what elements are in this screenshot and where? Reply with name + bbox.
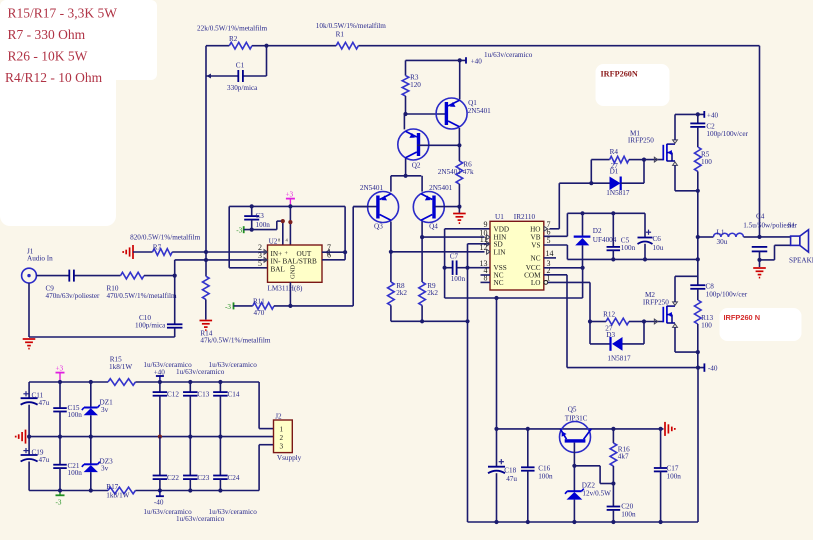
svg-text:R7 - 330 Ohm: R7 - 330 Ohm (8, 27, 86, 42)
power -3 at C3 (236, 226, 244, 234)
svg-text:VB: VB (531, 233, 541, 241)
svg-text:100n: 100n (621, 511, 636, 519)
svg-text:100n: 100n (538, 473, 553, 481)
svg-text:IRFP260N: IRFP260N (601, 70, 638, 79)
transistor M2 IRFP250 (643, 291, 678, 327)
svg-text:30u: 30u (717, 238, 728, 246)
svg-text:U1: U1 (495, 213, 504, 221)
wire gate M2 (644, 319, 663, 324)
resistor R17 (106, 483, 135, 500)
capacitor C3 (244, 206, 270, 229)
svg-text:470n/63v/poliester: 470n/63v/poliester (46, 292, 101, 300)
junction C23 bottom (188, 488, 192, 492)
wire U1 VCC pin 3 (544, 267, 583, 269)
svg-text:C18: C18 (504, 467, 516, 475)
svg-text:2N5401: 2N5401 (468, 107, 492, 115)
capacitor C14 (213, 382, 240, 437)
svg-text:C13: C13 (197, 391, 209, 399)
capacitor C16 (521, 429, 553, 522)
resistor R7 (130, 233, 200, 255)
svg-text:47u: 47u (506, 475, 517, 483)
wire Q4 collector riser (421, 222, 423, 238)
svg-text:C7: C7 (450, 252, 459, 260)
wire J2 pin 1 (259, 382, 273, 429)
junction VCC/D2 (581, 266, 585, 270)
svg-text:1u/63v/ceramico: 1u/63v/ceramico (176, 515, 225, 523)
junction C17 bottom (659, 520, 663, 524)
svg-text:C23: C23 (197, 474, 209, 482)
power +40 (M1) (704, 111, 718, 120)
junction R2/C1 right (264, 44, 268, 48)
annotation note box top-left (0, 0, 157, 226)
junction D2 top (580, 211, 584, 215)
junction C15/C21 (58, 435, 62, 439)
wire VDD net under U1 to VCC (445, 268, 583, 298)
svg-text:IRFP260 N: IRFP260 N (724, 313, 761, 322)
svg-text:100p/mica: 100p/mica (135, 321, 166, 329)
wire U1 SD pin 11 (468, 243, 491, 245)
svg-text:1u/63v/ceramico: 1u/63v/ceramico (484, 51, 533, 59)
junction R6 bottom/Q4 base (457, 205, 461, 209)
wire GND middle rail (29, 436, 273, 438)
resistor R3 (402, 60, 421, 114)
wire R10 to junction (144, 275, 175, 277)
resistor R13 (695, 300, 714, 352)
wire feedback net top (206, 46, 760, 237)
capacitor C17 (654, 429, 681, 522)
ground supply (left) (25, 430, 27, 444)
transistor M1 IRFP250 (628, 130, 678, 166)
capacitor C23 (183, 437, 210, 491)
svg-text:100n: 100n (667, 473, 682, 481)
wire U1 VS pin 5 (544, 245, 568, 259)
power -40 (M2) (704, 363, 717, 372)
junction IN+ node (204, 250, 208, 254)
resistor R1 (316, 22, 386, 49)
wire junction up to IN- wire (174, 260, 176, 276)
svg-text:12v/0.5W: 12v/0.5W (582, 490, 611, 498)
svg-text:D3: D3 (606, 331, 615, 339)
svg-text:Q1: Q1 (468, 99, 477, 107)
svg-text:VDD: VDD (494, 225, 510, 233)
junction DZ2 bottom (572, 520, 576, 524)
svg-text:GND: GND (290, 265, 297, 279)
junction C5 top (611, 211, 615, 215)
svg-text:-40: -40 (708, 365, 718, 373)
junction Q3 collector/LIN/R8 (389, 250, 393, 254)
resistor R16 (610, 429, 630, 484)
junction R16 bottom (611, 481, 615, 485)
resistor R11 (253, 297, 274, 317)
wire C4 ground stub (759, 260, 761, 267)
junction +40/C2 (696, 112, 700, 116)
power +40 at Q1 (406, 51, 533, 66)
svg-text:BAL: BAL (271, 265, 285, 273)
resistor R15 (108, 356, 135, 386)
svg-text:100p/100v/cer: 100p/100v/cer (706, 290, 748, 298)
svg-text:1k8/1W: 1k8/1W (106, 492, 129, 500)
svg-text:Vsupply: Vsupply (277, 454, 302, 462)
wire J2 pin 3 (259, 445, 273, 491)
svg-text:C6: C6 (653, 235, 662, 243)
svg-text:R12: R12 (603, 310, 615, 318)
junction R9 bottom (420, 319, 424, 323)
svg-text:LO: LO (531, 279, 541, 287)
wire junction down to C10 (174, 276, 176, 325)
svg-text:100n: 100n (621, 244, 636, 252)
junction -40 rail / switch leg (696, 366, 700, 370)
svg-text:D1: D1 (610, 167, 619, 175)
power +3 (supply) (56, 364, 65, 382)
svg-text:LM311H(8): LM311H(8) (268, 285, 303, 293)
svg-text:+3: +3 (56, 364, 64, 372)
svg-text:L1: L1 (717, 228, 725, 236)
wire output to speaker (760, 237, 791, 260)
capacitor C11 electrolytic (21, 382, 50, 437)
wire VDD riser from regulator (496, 298, 498, 429)
svg-text:C4: C4 (756, 213, 765, 221)
junction DZ1 top (89, 380, 93, 384)
svg-text:100n: 100n (256, 221, 271, 229)
wire VS rail to switch node (567, 258, 698, 260)
inductor L1 (698, 228, 760, 245)
capacitor C4 (743, 213, 797, 260)
ground speaker (753, 267, 766, 269)
capacitor C6 electrolytic (638, 213, 664, 259)
capacitor C10 (135, 314, 182, 329)
junction M1 source/snubber (696, 189, 700, 193)
svg-text:1.5u/50w/poliester: 1.5u/50w/poliester (743, 222, 797, 230)
svg-text:100: 100 (701, 321, 712, 329)
wire C10 to ground rail (29, 283, 175, 337)
wire -3 to U2 V- pin (244, 221, 283, 245)
capacitor C5 (607, 213, 636, 259)
wire M2 source to -40 (675, 327, 698, 352)
wire Q3/Q4 emitter rail (391, 176, 422, 192)
svg-text:SPEAKER: SPEAKER (789, 256, 813, 264)
svg-text:100n: 100n (68, 469, 83, 477)
junction D1 left (589, 181, 593, 185)
wire regulator top rail (497, 428, 664, 430)
junction C17 top (659, 427, 663, 431)
svg-text:IRFP250: IRFP250 (628, 137, 654, 145)
transistor Q3 2N5401 (360, 184, 399, 230)
svg-text:R17: R17 (106, 483, 118, 491)
svg-text:10u: 10u (653, 244, 664, 252)
wire R2 to IN+ vertical (205, 46, 207, 252)
junction +3 rail (288, 204, 292, 208)
svg-text:4k7: 4k7 (618, 453, 629, 461)
svg-text:1u/63v/ceramico: 1u/63v/ceramico (176, 368, 225, 376)
svg-text:47u: 47u (39, 456, 50, 464)
wire R14 to ground (205, 299, 207, 319)
svg-text:D2: D2 (593, 227, 602, 235)
capacitor C21 (53, 437, 82, 491)
zener DZ3 (82, 437, 113, 491)
svg-text:2k2: 2k2 (396, 289, 407, 297)
svg-text:100: 100 (701, 158, 712, 166)
svg-text:2k2: 2k2 (427, 289, 438, 297)
svg-text:3: 3 (280, 442, 284, 450)
svg-text:10k/0.5W/1%/metalfilm: 10k/0.5W/1%/metalfilm (316, 22, 386, 30)
ground regulator (right) (664, 422, 666, 436)
zener DZ2 (565, 466, 611, 522)
junction V- riser (281, 219, 285, 223)
junction C22 bottom (158, 488, 162, 492)
svg-text:IRFP250: IRFP250 (643, 299, 669, 307)
junction C13 mid (188, 435, 192, 439)
wire R11 to Q3 base riser (274, 207, 368, 306)
connector J2 Vsupply (274, 413, 302, 462)
svg-text:R26 - 10K 5W: R26 - 10K 5W (8, 49, 88, 64)
junction Q4 collector/HIN/R9 (420, 235, 424, 239)
svg-text:5: 5 (547, 236, 551, 245)
wire Q4 base to R6 bottom (435, 206, 460, 208)
svg-text:-3: -3 (225, 303, 231, 311)
wire U1 VSS pin 13 (468, 267, 491, 269)
wire Q5 base to R16 bottom (574, 466, 613, 484)
wire M1 drain to +40 (675, 114, 704, 140)
zener DZ1 (82, 382, 113, 437)
wire -3/-40 bottom rail (29, 490, 259, 492)
svg-text:47k: 47k (463, 168, 474, 176)
svg-text:R15/R17 - 3,3K 5W: R15/R17 - 3,3K 5W (8, 6, 118, 21)
svg-text:+40: +40 (471, 58, 483, 66)
wire down to R14 (205, 252, 207, 276)
wire J1 to C9 (36, 275, 69, 277)
junction C18 bottom (494, 520, 498, 524)
svg-text:-3: -3 (56, 499, 62, 507)
wire U2 GND pin down (289, 282, 291, 306)
junction Q1 collector/Q2 base/R6 (457, 143, 461, 147)
resistor R6 (438, 145, 474, 206)
svg-text:NC: NC (494, 279, 504, 287)
svg-text:HO: HO (530, 225, 540, 233)
svg-text:R1: R1 (336, 31, 345, 39)
svg-text:2N5401: 2N5401 (438, 168, 462, 176)
svg-text:C16: C16 (538, 465, 550, 473)
wire Q3 collector riser (390, 222, 392, 252)
ic U1 IR2110 (480, 213, 557, 290)
capacitor C22 (153, 437, 180, 491)
svg-text:J2: J2 (275, 413, 282, 421)
wire VSS riser down to regulator rail (467, 244, 469, 522)
junction C19 top (27, 435, 31, 439)
annotation IRFP260N (top) (596, 64, 670, 106)
junction output node (757, 235, 761, 239)
wire U1 VB pin 6 (544, 213, 568, 236)
svg-text:Q3: Q3 (374, 222, 383, 230)
capacitor C24 (213, 437, 240, 491)
wire U1 LO pin 1 to gate network (548, 282, 590, 321)
annotation IRFP260N (right) (720, 308, 802, 341)
svg-text:R2: R2 (229, 35, 238, 43)
junction VDD riser top (494, 296, 498, 300)
junction M2 source (696, 350, 700, 354)
svg-text:C5: C5 (621, 236, 630, 244)
svg-text:C3: C3 (256, 212, 265, 220)
wire Q1 emitter riser (459, 60, 461, 99)
svg-text:14: 14 (546, 249, 554, 258)
svg-text:3v: 3v (101, 465, 109, 473)
diode D3 1N5817 (590, 322, 644, 363)
wire U2 OUT pins (322, 206, 345, 259)
power -3 at R11 (225, 302, 253, 311)
speaker S1 (788, 221, 813, 264)
svg-text:1N5817: 1N5817 (607, 355, 631, 363)
transistor Q2 2N5401 (398, 129, 429, 170)
wire switch leg to -40 rail (697, 352, 699, 368)
junction C14 mid (218, 435, 222, 439)
svg-text:R4/R12 - 10 Ohm: R4/R12 - 10 Ohm (5, 70, 103, 85)
wire R6 ground stub (458, 207, 460, 213)
transistor Q4 2N5401 (413, 184, 452, 230)
junction R10/C10/IN- (173, 274, 177, 278)
junction OUT (343, 250, 347, 254)
junction C13 top (188, 380, 192, 384)
wire -40 down to bottom rail (468, 368, 699, 522)
junction C14 top (218, 380, 222, 384)
junction Q5 base (572, 464, 576, 468)
svg-text:NC: NC (531, 254, 541, 262)
junction R16 top (611, 427, 615, 431)
junction C20 bottom (611, 520, 615, 524)
svg-text:C20: C20 (621, 503, 633, 511)
svg-text:470/0.5W/1%/metalfilm: 470/0.5W/1%/metalfilm (107, 292, 177, 300)
svg-text:820/0.5W/1%/metalfilm: 820/0.5W/1%/metalfilm (130, 233, 200, 241)
wire +3/+40 top rail (29, 381, 259, 383)
svg-text:C1: C1 (236, 61, 245, 69)
svg-text:R11: R11 (253, 297, 265, 305)
svg-text:C22: C22 (167, 474, 179, 482)
svg-text:+3: +3 (286, 191, 294, 199)
svg-text:1k8/1W: 1k8/1W (109, 363, 132, 371)
junction C7 left / VDD (443, 266, 447, 270)
wire Q3 base (353, 206, 376, 208)
junction C7 right / VSS (465, 266, 469, 270)
wire U1 VDD pin 9 (445, 229, 490, 268)
wire R8/R9 bottom rail to VSS riser (391, 320, 468, 322)
wire Q2 emitter riser (403, 114, 405, 129)
transistor Q5 TIP31C (560, 406, 592, 466)
svg-text:1: 1 (280, 425, 284, 433)
power -40 (supply) (154, 491, 164, 507)
capacitor C9 (46, 270, 101, 300)
diode D1 1N5817 (591, 160, 644, 197)
svg-text:-3: -3 (236, 226, 242, 234)
svg-text:U2: U2 (269, 238, 278, 246)
wire switch node vertical (697, 191, 699, 285)
diode D2 UF4004 (574, 213, 617, 267)
junction C3 top (250, 204, 254, 208)
junction LO/R12/D3 (588, 319, 592, 323)
svg-text:2N5401: 2N5401 (429, 184, 453, 192)
junction C21 bottom (58, 488, 62, 492)
svg-text:100n: 100n (451, 275, 466, 283)
wire M1 source to node (675, 165, 698, 191)
resistor R4 (591, 148, 644, 183)
svg-text:VS: VS (531, 242, 540, 250)
resistor R10 (107, 272, 177, 300)
junction DZ1/DZ3 (89, 435, 93, 439)
power +3 above U2 (286, 191, 295, 245)
svg-text:-40: -40 (154, 498, 164, 506)
svg-text:330p/mica: 330p/mica (227, 84, 258, 92)
power +40 (supply) (154, 368, 166, 382)
ground J1 (23, 338, 36, 340)
junction Q2 collector (404, 174, 408, 178)
resistor R5 (695, 147, 713, 191)
junction U2 GND/R11 (288, 304, 292, 308)
junction VSS riser bottom wire (465, 319, 469, 323)
wire C9 to R10 (75, 275, 121, 277)
svg-text:5: 5 (258, 259, 262, 268)
power -3 (supply) (56, 491, 65, 507)
svg-text:LIN: LIN (494, 248, 507, 256)
svg-text:C17: C17 (667, 465, 679, 473)
junction C5 bottom (611, 257, 615, 261)
transistor Q1 2N5401 (436, 98, 491, 129)
svg-text:SD: SD (494, 240, 503, 248)
svg-text:BAL/STRB: BAL/STRB (283, 258, 318, 266)
junction C16 top (526, 427, 530, 431)
ground R14 (200, 320, 213, 322)
capacitor C7 (445, 252, 468, 282)
label ceramic caps top (143, 361, 257, 376)
svg-text:2: 2 (280, 434, 284, 442)
wire IN- to U2 pin 3 (175, 259, 268, 261)
wire M2 drain to switch node (675, 276, 698, 302)
svg-text:120: 120 (410, 81, 421, 89)
svg-text:2N5401: 2N5401 (360, 184, 384, 192)
wire Q1 collector riser (458, 128, 460, 145)
junction V+ riser (288, 220, 292, 224)
svg-text:C24: C24 (228, 474, 240, 482)
junction C12 mid (158, 435, 162, 439)
svg-text:3v: 3v (101, 406, 109, 414)
junction C3 bottom (250, 228, 254, 232)
capacitor C13 (183, 382, 210, 437)
capacitor C12 (153, 382, 180, 437)
wire VB bootstrap rail (567, 212, 645, 214)
svg-text:1N5817: 1N5817 (606, 189, 630, 197)
svg-text:C12: C12 (167, 391, 179, 399)
junction C16 bottom (526, 520, 530, 524)
junction Q1 emitter/+40 (458, 58, 462, 62)
ground R7 (left) (123, 245, 152, 259)
wire gate M1 (644, 157, 663, 162)
svg-text:Q5: Q5 (568, 406, 577, 414)
junction IN- tap (204, 258, 208, 262)
capacitor C18 electrolytic (488, 429, 517, 522)
wire HIN to U1 pin 10 (422, 236, 484, 238)
capacitor C1 (206, 46, 267, 92)
svg-text:470: 470 (254, 309, 265, 317)
resistor R2 (197, 25, 267, 50)
junction VS rail node (696, 257, 700, 261)
junction C18 top (494, 427, 498, 431)
junction R12/D3 right (642, 319, 646, 323)
svg-text:Q2: Q2 (412, 162, 421, 170)
junction C15 top (58, 380, 62, 384)
wire rail above U2 (229, 206, 345, 267)
junction R3/Q1 base/Q2 emitter (403, 112, 407, 116)
capacitor C8 (690, 283, 747, 300)
svg-text:DZ2: DZ2 (582, 482, 596, 490)
capacitor C15 (53, 382, 82, 437)
capacitor C19 electrolytic (21, 437, 50, 491)
svg-text:+40: +40 (707, 112, 719, 120)
